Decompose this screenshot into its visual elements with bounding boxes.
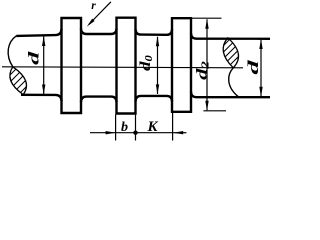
leader r: arrow line (89, 2, 111, 25)
dimension b/K: extension line ridge3 left (172, 113, 174, 141)
svg-text:K: K (146, 119, 158, 135)
dimension K: arrow + tail (173, 132, 186, 134)
dimension d0: line (157, 37, 159, 94)
svg-text:r: r (91, 0, 96, 12)
dimension b/K: extension line ridge2 right (135, 115, 137, 141)
ridge 3 (172, 18, 191, 112)
break line left end (8, 36, 16, 67)
junction dot (133, 131, 137, 135)
svg-text:b: b (121, 120, 128, 135)
dimension b: tail + arrow (90, 132, 116, 134)
centerline (2, 67, 243, 68)
groove B bottom surface (136, 96, 173, 102)
wire left top surface (16, 29, 61, 36)
svg-text:d: d (245, 60, 261, 75)
groove A bottom surface (81, 97, 117, 103)
dimension d2: extension bottom (203, 110, 226, 112)
dimension d right: line (260, 40, 262, 97)
wire right bottom surface (191, 92, 270, 98)
dimension b/K: extension line ridge2 left (115, 115, 117, 141)
dimension b-K shared line (116, 132, 174, 134)
groove A top surface (81, 29, 117, 35)
section leaf left (hatched) (10, 67, 27, 95)
wire left bottom surface (21, 95, 62, 101)
ridge 2 (117, 18, 136, 114)
dimension d left: line (43, 37, 45, 95)
svg-text:d: d (25, 51, 42, 65)
ridge 1 (62, 18, 82, 113)
break line right end (229, 68, 239, 97)
dimension d2: extension top (191, 17, 222, 19)
groove B top surface (136, 29, 173, 35)
dimension d2: line (206, 19, 208, 110)
wire right top surface (191, 33, 270, 39)
section leaf right (hatched) (223, 38, 238, 68)
